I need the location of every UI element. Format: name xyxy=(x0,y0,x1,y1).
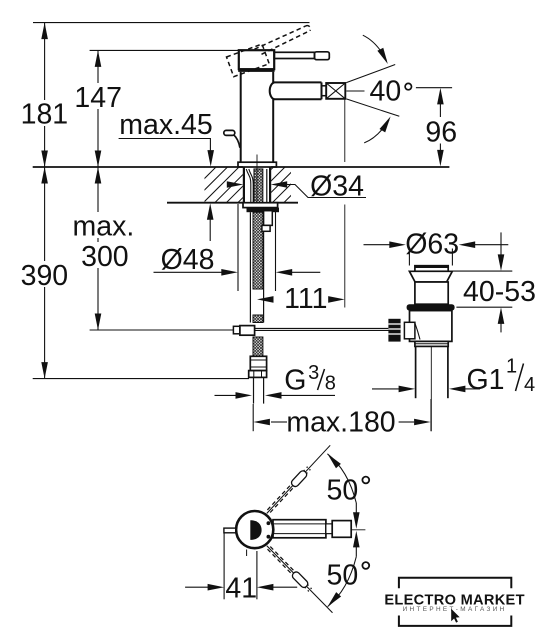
svg-text:max.180: max.180 xyxy=(286,407,395,439)
svg-text:max.: max. xyxy=(73,211,135,243)
svg-text:50: 50 xyxy=(327,560,359,592)
svg-text:390: 390 xyxy=(21,260,69,292)
svg-text:40: 40 xyxy=(370,76,402,108)
svg-text:96: 96 xyxy=(425,117,457,149)
svg-text:3: 3 xyxy=(308,362,319,384)
svg-text:50: 50 xyxy=(327,475,359,507)
svg-text:Ø63: Ø63 xyxy=(405,228,459,260)
svg-text:G1: G1 xyxy=(467,364,505,396)
svg-text:41: 41 xyxy=(225,573,257,605)
svg-text:147: 147 xyxy=(74,82,122,114)
svg-text:111: 111 xyxy=(284,283,327,315)
svg-text:max.45: max.45 xyxy=(119,109,212,141)
svg-text:40-53: 40-53 xyxy=(463,276,536,308)
svg-text:300: 300 xyxy=(81,241,129,273)
svg-text:Ø48: Ø48 xyxy=(161,244,215,276)
svg-text:8: 8 xyxy=(325,373,336,395)
svg-text:1: 1 xyxy=(506,356,517,378)
svg-text:181: 181 xyxy=(21,99,69,131)
svg-text:G: G xyxy=(284,365,306,397)
svg-text:4: 4 xyxy=(524,374,535,396)
svg-text:ИНТЕРНЕТ-МАГАЗИН: ИНТЕРНЕТ-МАГАЗИН xyxy=(403,606,507,613)
